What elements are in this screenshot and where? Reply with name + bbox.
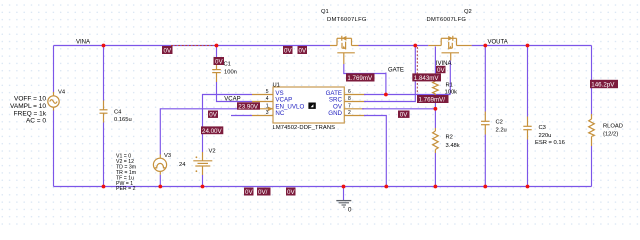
svg-text:0V: 0V — [437, 67, 445, 74]
svg-text:C4: C4 — [114, 110, 122, 116]
wire OV pin7 to divider — [362, 108, 435, 110]
svg-text:0V: 0V — [287, 189, 295, 196]
junction ground/bottom rail — [342, 185, 346, 189]
svg-text:4: 4 — [266, 96, 269, 102]
junction R2/bottom rail — [434, 185, 438, 189]
svg-text:0V: 0V — [299, 48, 307, 55]
U1 marker (black square) — [308, 103, 315, 109]
junction C1/top rail — [215, 44, 219, 48]
wire NC stub — [231, 115, 252, 117]
svg-text:5: 5 — [266, 89, 269, 95]
svg-text:0V/: 0V/ — [258, 189, 268, 196]
source V3 (VPULSE) — [153, 155, 166, 175]
bias label 0V (OV row) — [398, 111, 410, 119]
svg-text:GND: GND — [328, 110, 342, 117]
wire SRC pin8 to mid-node riser — [364, 46, 415, 102]
capacitor C3 — [523, 46, 531, 187]
svg-text:0: 0 — [348, 206, 352, 213]
junction C2/top rail — [483, 44, 487, 48]
svg-text:6: 6 — [348, 89, 351, 95]
svg-text:RLOAD: RLOAD — [603, 124, 623, 130]
wire top rail VINA — [54, 45, 331, 47]
bias label 24.00V — [201, 126, 223, 134]
bias label 0V (IVINA) — [436, 66, 446, 74]
junction SRC riser/top rail — [413, 44, 417, 48]
U1 pin numbers — [266, 89, 269, 116]
dashed leader top-left — [171, 45, 215, 47]
bias label 1.769mV (Q1 gate) — [346, 73, 375, 82]
bias label 1.769mV/ (GATE row) — [417, 95, 449, 104]
wire Q1 gate path — [344, 64, 386, 74]
svg-text:3: 3 — [266, 110, 269, 116]
wire bottom rail — [54, 186, 592, 188]
wire RLOAD right drop — [591, 46, 593, 117]
junction V2/bottom rail — [201, 185, 205, 189]
U1 pin names — [275, 90, 304, 117]
capacitor C1 — [212, 46, 221, 83]
svg-text:DMT6007LFG: DMT6007LFG — [327, 17, 367, 23]
svg-text:2: 2 — [348, 110, 351, 116]
junction GATE net — [384, 93, 388, 97]
svg-text:C2: C2 — [496, 120, 503, 126]
svg-text:3.48k: 3.48k — [446, 143, 460, 149]
wire top rail right to VOUTA corner — [472, 45, 592, 47]
ground 0 — [336, 187, 351, 208]
V3 parameter text — [116, 153, 136, 192]
svg-text:FREQ = 1k: FREQ = 1k — [14, 110, 47, 117]
svg-text:AC = 0: AC = 0 — [26, 118, 46, 125]
svg-text:LM74502-DDF_TRANS: LM74502-DDF_TRANS — [273, 125, 336, 131]
wire V2 riser to VS pin — [203, 95, 253, 153]
bias label 1.843mV — [412, 73, 441, 82]
svg-text:ESR = 0.16: ESR = 0.16 — [535, 140, 565, 146]
svg-text:1.769mV: 1.769mV — [347, 75, 373, 82]
bias label 0V (bottom rail 3) — [286, 188, 296, 197]
svg-text:R2: R2 — [446, 135, 453, 141]
wire R1 bottom to OV node — [434, 98, 436, 109]
wire left drop lower (V4 to bottom rail) — [53, 110, 55, 187]
source V2 (VDC battery) — [193, 152, 212, 175]
wire GATE pin6 to junction and Q2 gate — [364, 94, 450, 96]
svg-text:VINA: VINA — [76, 39, 90, 45]
svg-text:VAMPL = 10: VAMPL = 10 — [10, 103, 46, 110]
wire IVINA/R1 riser — [434, 47, 436, 78]
svg-text:PER = 2: PER = 2 — [116, 186, 136, 192]
resistor RLOAD — [589, 114, 595, 146]
junction C3/bottom rail — [526, 185, 530, 189]
svg-text:0V: 0V — [284, 48, 292, 55]
svg-text:23.90V: 23.90V — [238, 103, 258, 110]
EN_UVLO input arrow — [268, 107, 273, 111]
junction GND pin/bottom rail — [384, 185, 388, 189]
bias label 0V (top rail a) — [283, 46, 293, 55]
svg-text:V3: V3 — [164, 153, 171, 159]
svg-text:24: 24 — [179, 162, 186, 168]
wire Q2 gate riser — [449, 61, 451, 95]
svg-text:220u: 220u — [539, 133, 552, 139]
wire top rail mid (between Q1 and Q2) — [359, 45, 429, 47]
junction C2/bottom rail — [483, 185, 487, 189]
bias label 0V/ (bottom rail 2) — [257, 188, 271, 197]
svg-text:U1: U1 — [273, 82, 280, 88]
svg-text:0V: 0V — [164, 48, 172, 55]
svg-text:100k: 100k — [445, 90, 458, 96]
resistor R1 — [433, 77, 439, 98]
svg-text:VOFF = 10: VOFF = 10 — [14, 95, 46, 102]
svg-text:1: 1 — [266, 103, 269, 109]
bias label 0V (top rail b) — [298, 46, 308, 55]
svg-text:0V: 0V — [245, 189, 253, 196]
pin stubs left — [252, 94, 273, 96]
svg-text:1.769mV/: 1.769mV/ — [419, 97, 446, 104]
svg-text:NC: NC — [275, 110, 284, 117]
svg-text:V4: V4 — [58, 90, 66, 96]
svg-text:24.00V: 24.00V — [202, 128, 222, 135]
dashed leader mid (to 1.843mV) — [416, 47, 418, 94]
svg-text:146.2pV: 146.2pV — [591, 82, 615, 89]
bias label 146.2pV — [590, 80, 618, 89]
svg-text:GATE: GATE — [388, 67, 404, 73]
junction C3/top rail — [526, 44, 530, 48]
V4 parameter text — [10, 95, 47, 124]
svg-text:2.2u: 2.2u — [496, 128, 507, 134]
voltage source V4 (VSIN) — [48, 92, 59, 111]
junction C4/bottom rail — [102, 185, 106, 189]
svg-text:0V: 0V — [215, 59, 223, 66]
svg-text:VCAP: VCAP — [224, 96, 240, 102]
capacitor C4 — [100, 46, 108, 187]
svg-text:1.843mV: 1.843mV — [414, 75, 440, 82]
svg-text:V2: V2 — [209, 149, 216, 155]
svg-text:8: 8 — [348, 96, 351, 102]
transistor Q2 DMT6007LFG — [428, 36, 471, 61]
svg-text:0V: 0V — [400, 112, 408, 119]
bias label 23.90V — [237, 102, 260, 110]
capacitor C2 — [481, 46, 490, 187]
bias label 0V (C1 stub) — [214, 57, 225, 66]
bias label 0V (EN row) — [208, 111, 218, 119]
svg-text:DMT6007LFG: DMT6007LFG — [427, 17, 467, 23]
junction V3/bottom rail — [158, 185, 162, 189]
junction C4/top rail — [102, 44, 106, 48]
wire GND pin2 drop to bottom rail — [364, 116, 386, 187]
transistor Q1 DMT6007LFG — [330, 36, 359, 64]
svg-text:100n: 100n — [224, 70, 237, 76]
svg-text:C3: C3 — [539, 125, 546, 131]
wire V3 to bottom rail — [159, 175, 161, 187]
svg-text:VOUTA: VOUTA — [488, 39, 508, 45]
bias label 0V (bottom rail 1) — [244, 188, 254, 197]
wire left drop upper (top rail to V4) — [53, 46, 55, 93]
wire C1 to VCAP pin — [217, 82, 253, 102]
junction OV node — [434, 107, 438, 111]
wire GATE riser to alias — [385, 73, 387, 95]
wire V3 riser to pin 3 — [160, 109, 252, 155]
svg-text:R1: R1 — [446, 83, 453, 89]
op-amp U1 LM74502-DDF_TRANS body — [252, 87, 366, 123]
svg-text:Q1: Q1 — [321, 9, 329, 15]
svg-text:{12/2}: {12/2} — [603, 132, 618, 138]
svg-text:0.165u: 0.165u — [114, 117, 132, 123]
svg-text:C1: C1 — [224, 62, 231, 68]
wire V2 to bottom rail — [202, 175, 204, 187]
pin stubs right — [344, 94, 365, 96]
svg-text:7: 7 — [348, 103, 351, 109]
svg-text:0V: 0V — [209, 112, 217, 119]
wire OV node to R2 — [434, 109, 436, 128]
resistor R2 — [433, 128, 439, 153]
wire R2 to bottom rail — [434, 153, 436, 187]
bias label 0V (top rail left) — [162, 46, 173, 55]
svg-text:Q2: Q2 — [464, 9, 472, 15]
